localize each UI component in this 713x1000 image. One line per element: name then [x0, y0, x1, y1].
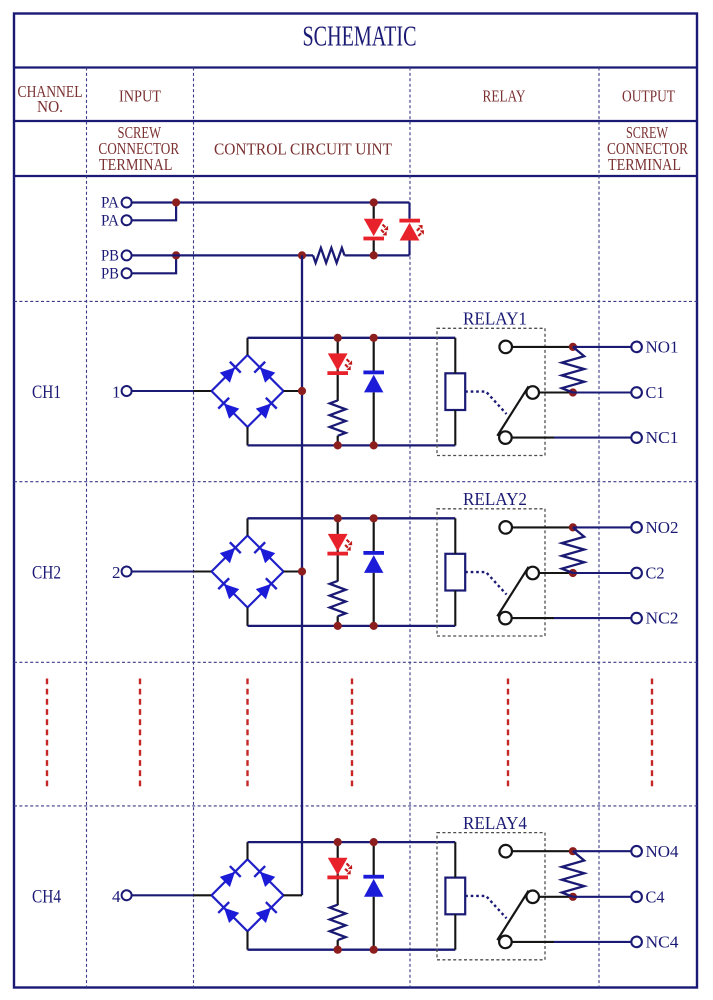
flyback diode channel 1	[363, 338, 384, 446]
wire NO contact to junction	[512, 850, 573, 852]
bridge diode D1b (right to top)	[260, 367, 275, 382]
continuation dashed line 1	[46, 679, 48, 788]
mechanical link (dotted)	[465, 896, 506, 918]
junction diode branch top	[370, 838, 378, 846]
mechanical link (dotted)	[465, 392, 506, 414]
svg-text:SCHEMATIC: SCHEMATIC	[303, 22, 417, 53]
switch arm (C to NC)	[497, 567, 528, 617]
svg-text:C2: C2	[646, 564, 665, 583]
wire PA upper rail	[132, 201, 410, 203]
LED LP1 (power indicator, cathode down)	[363, 203, 388, 256]
junction PB	[172, 251, 180, 259]
junction C	[569, 569, 577, 577]
wire NC contact to terminal	[511, 617, 554, 619]
wire bottom rail	[248, 949, 456, 951]
header row separator line	[14, 120, 697, 122]
relay coil K4	[445, 878, 465, 915]
wire input terminal to column line	[132, 390, 194, 392]
wire top rail	[248, 517, 456, 519]
wire column line to bridge	[194, 570, 212, 572]
relay RELAY2 dashed enclosure	[437, 509, 545, 636]
svg-text:CH2: CH2	[32, 564, 61, 584]
wire bridge to common bus	[284, 894, 303, 896]
junction NO	[569, 523, 577, 531]
bridge diode D2c (bottom to left)	[224, 584, 239, 599]
junction diode branch bottom	[370, 441, 378, 449]
output terminal C2	[631, 568, 642, 579]
junction LED branch bottom	[334, 622, 342, 630]
junction C	[569, 388, 577, 396]
wire coil top stub	[454, 338, 456, 374]
wire C contact to junction	[539, 391, 573, 393]
wire coil bottom stub	[454, 410, 456, 445]
mechanical link (dotted)	[465, 572, 506, 594]
dashed row separator 2	[14, 481, 697, 483]
resistor across NO-C channel 1	[562, 347, 584, 393]
svg-text:PB: PB	[101, 265, 119, 282]
wire C to terminal C4	[573, 896, 632, 898]
svg-text:1: 1	[112, 383, 121, 402]
wire NC contact to terminal	[511, 941, 554, 943]
junction LED LP1 top	[370, 198, 378, 206]
wire NC contact to terminal	[511, 437, 554, 439]
bridge diode D1a (lower-left to top)	[220, 367, 235, 382]
dashed column separator 2	[193, 68, 195, 988]
svg-text:NC4: NC4	[646, 933, 680, 952]
diode bridge D2	[212, 536, 284, 608]
svg-text:NO4: NO4	[646, 842, 679, 861]
continuation dashed line 3	[246, 679, 248, 788]
resistor R0 (input series)	[313, 248, 345, 263]
junction LED branch bottom	[334, 441, 342, 449]
output terminal NO1	[631, 342, 642, 353]
relay contact common pole channel 4	[526, 891, 539, 904]
dashed column separator 3	[409, 68, 411, 988]
wire coil top stub	[454, 842, 456, 878]
wire coil bottom stub	[454, 914, 456, 949]
wire vertical common bus	[301, 255, 303, 895]
wire NO to terminal NO4	[573, 850, 632, 852]
wire top rail	[248, 841, 456, 843]
wire bridge bottom stub	[246, 931, 248, 949]
wire PB rail right part	[345, 254, 410, 256]
svg-text:CH4: CH4	[32, 887, 61, 907]
svg-text:NC2: NC2	[646, 609, 679, 628]
LED LP2 (power indicator, cathode up)	[399, 203, 424, 256]
wire NO contact to junction	[512, 346, 573, 348]
wire bridge bottom stub	[246, 427, 248, 445]
relay contact NC pole channel 1	[499, 431, 512, 444]
wire C to terminal C1	[573, 391, 632, 393]
svg-text:TERMINAL: TERMINAL	[99, 155, 172, 174]
wire NO contact to junction	[512, 526, 573, 528]
bridge diode D4d (bottom to right)	[256, 908, 271, 923]
wire bridge top stub	[246, 338, 248, 355]
svg-text:CONTROL CIRCUIT UINT: CONTROL CIRCUIT UINT	[214, 139, 392, 158]
wire bridge to common bus	[284, 390, 303, 392]
junction LED LP1 bottom	[370, 251, 378, 259]
wire input terminal to column line	[132, 570, 194, 572]
continuation dashed line 4	[351, 679, 353, 788]
wire PA lower to junction	[132, 203, 177, 221]
svg-text:PB: PB	[101, 247, 119, 264]
bridge diode D2a (lower-left to top)	[220, 548, 235, 563]
junction NO	[569, 847, 577, 855]
svg-text:RELAY4: RELAY4	[463, 813, 527, 833]
switch arm (C to NC)	[497, 891, 528, 941]
wire C to terminal C2	[573, 572, 632, 574]
wire PB lower to junction	[132, 255, 177, 273]
dashed row separator 4	[14, 805, 697, 807]
wire bottom rail	[248, 444, 456, 446]
output terminal NO2	[631, 522, 642, 533]
wire C contact to junction	[539, 896, 573, 898]
wire C contact to junction	[539, 572, 573, 574]
svg-text:NO1: NO1	[646, 338, 679, 357]
svg-text:RELAY1: RELAY1	[463, 309, 527, 329]
junction common bus	[298, 567, 306, 575]
continuation dashed line 2	[139, 679, 141, 788]
output terminal NC4	[631, 937, 642, 948]
junction LED branch bottom	[334, 946, 342, 954]
wire bridge bottom stub	[246, 608, 248, 626]
relay coil K1	[445, 373, 465, 410]
wire bottom rail	[248, 625, 456, 627]
header bottom separator line	[14, 175, 697, 177]
bridge diode D4a (lower-left to top)	[220, 872, 235, 887]
junction LED branch top	[334, 514, 342, 522]
relay contact NC pole channel 4	[499, 936, 512, 949]
svg-text:2: 2	[112, 563, 121, 582]
bridge diode D4b (right to top)	[260, 872, 275, 887]
svg-text:NO.: NO.	[37, 97, 63, 116]
node common junction (to vertical bus)	[298, 251, 306, 259]
LED indicator channel 4	[327, 842, 352, 905]
wire PB rail left part	[132, 254, 313, 256]
continuation dashed line 6	[651, 679, 653, 788]
dashed row separator 1	[14, 300, 697, 302]
wire NO to terminal NO2	[573, 526, 632, 528]
svg-text:CH1: CH1	[32, 383, 61, 403]
LED indicator channel 1	[327, 338, 352, 401]
junction NO	[569, 343, 577, 351]
LED indicator channel 2	[327, 518, 352, 581]
diode bridge D1	[212, 355, 284, 427]
bridge diode D4c (bottom to left)	[224, 908, 239, 923]
wire column line to bridge	[194, 390, 212, 392]
resistor channel 2 (LED series)	[330, 581, 346, 616]
junction diode branch bottom	[370, 946, 378, 954]
output terminal NC2	[631, 613, 642, 624]
dashed column separator 4	[598, 68, 600, 988]
flyback diode channel 2	[363, 518, 384, 626]
relay contact NO pole channel 4	[499, 845, 512, 858]
bridge diode D1d (bottom to right)	[256, 403, 271, 418]
wire NO to terminal NO1	[573, 346, 632, 348]
svg-text:C1: C1	[646, 383, 665, 402]
svg-text:RELAY: RELAY	[483, 87, 526, 106]
relay RELAY4 dashed enclosure	[437, 833, 545, 960]
svg-text:RELAY2: RELAY2	[463, 489, 527, 509]
junction C	[569, 893, 577, 901]
resistor channel 1 (LED series)	[330, 400, 346, 435]
junction diode branch bottom	[370, 622, 378, 630]
junction LED branch top	[334, 334, 342, 342]
relay contact common pole channel 1	[526, 386, 539, 399]
svg-text:PA: PA	[101, 212, 120, 229]
svg-text:OUTPUT: OUTPUT	[622, 87, 675, 106]
wire coil bottom stub	[454, 591, 456, 626]
bridge diode D1c (bottom to left)	[224, 403, 239, 418]
title separator line	[14, 66, 697, 68]
relay RELAY1 dashed enclosure	[437, 328, 545, 455]
output terminal C1	[631, 387, 642, 398]
diode bridge D4	[212, 859, 284, 931]
junction diode branch top	[370, 334, 378, 342]
dashed column separator 1	[86, 68, 88, 988]
relay contact NO pole channel 1	[499, 341, 512, 354]
output terminal NO4	[631, 846, 642, 857]
relay coil K2	[445, 554, 465, 591]
wire input terminal to column line	[132, 894, 194, 896]
junction common bus	[298, 387, 306, 395]
wire column line to bridge	[194, 894, 212, 896]
svg-text:INPUT: INPUT	[119, 87, 161, 106]
relay contact NC pole channel 2	[499, 612, 512, 625]
flyback diode channel 4	[363, 842, 384, 950]
switch arm (C to NC)	[497, 386, 528, 436]
relay contact common pole channel 2	[526, 567, 539, 580]
wire top rail	[248, 337, 456, 339]
resistor channel 4 (LED series)	[330, 905, 346, 940]
bridge diode D2d (bottom to right)	[256, 584, 271, 599]
resistor across NO-C channel 4	[562, 851, 584, 897]
dashed row separator 3	[14, 661, 697, 663]
wire bridge top stub	[246, 518, 248, 535]
resistor across NO-C channel 2	[562, 527, 584, 573]
svg-text:NO2: NO2	[646, 518, 679, 537]
svg-text:NC1: NC1	[646, 428, 679, 447]
svg-text:4: 4	[112, 887, 121, 906]
wire bridge top stub	[246, 842, 248, 859]
junction diode branch top	[370, 514, 378, 522]
output terminal NC1	[631, 432, 642, 443]
continuation dashed line 5	[507, 679, 509, 788]
wire coil top stub	[454, 518, 456, 554]
relay contact NO pole channel 2	[499, 521, 512, 534]
svg-text:C4: C4	[646, 887, 665, 906]
junction PA	[172, 198, 180, 206]
svg-text:PA: PA	[101, 195, 120, 212]
output terminal C4	[631, 892, 642, 903]
svg-text:TERMINAL: TERMINAL	[608, 155, 681, 174]
bridge diode D2b (right to top)	[260, 548, 275, 563]
junction LED branch top	[334, 838, 342, 846]
wire bridge to common bus	[284, 570, 303, 572]
